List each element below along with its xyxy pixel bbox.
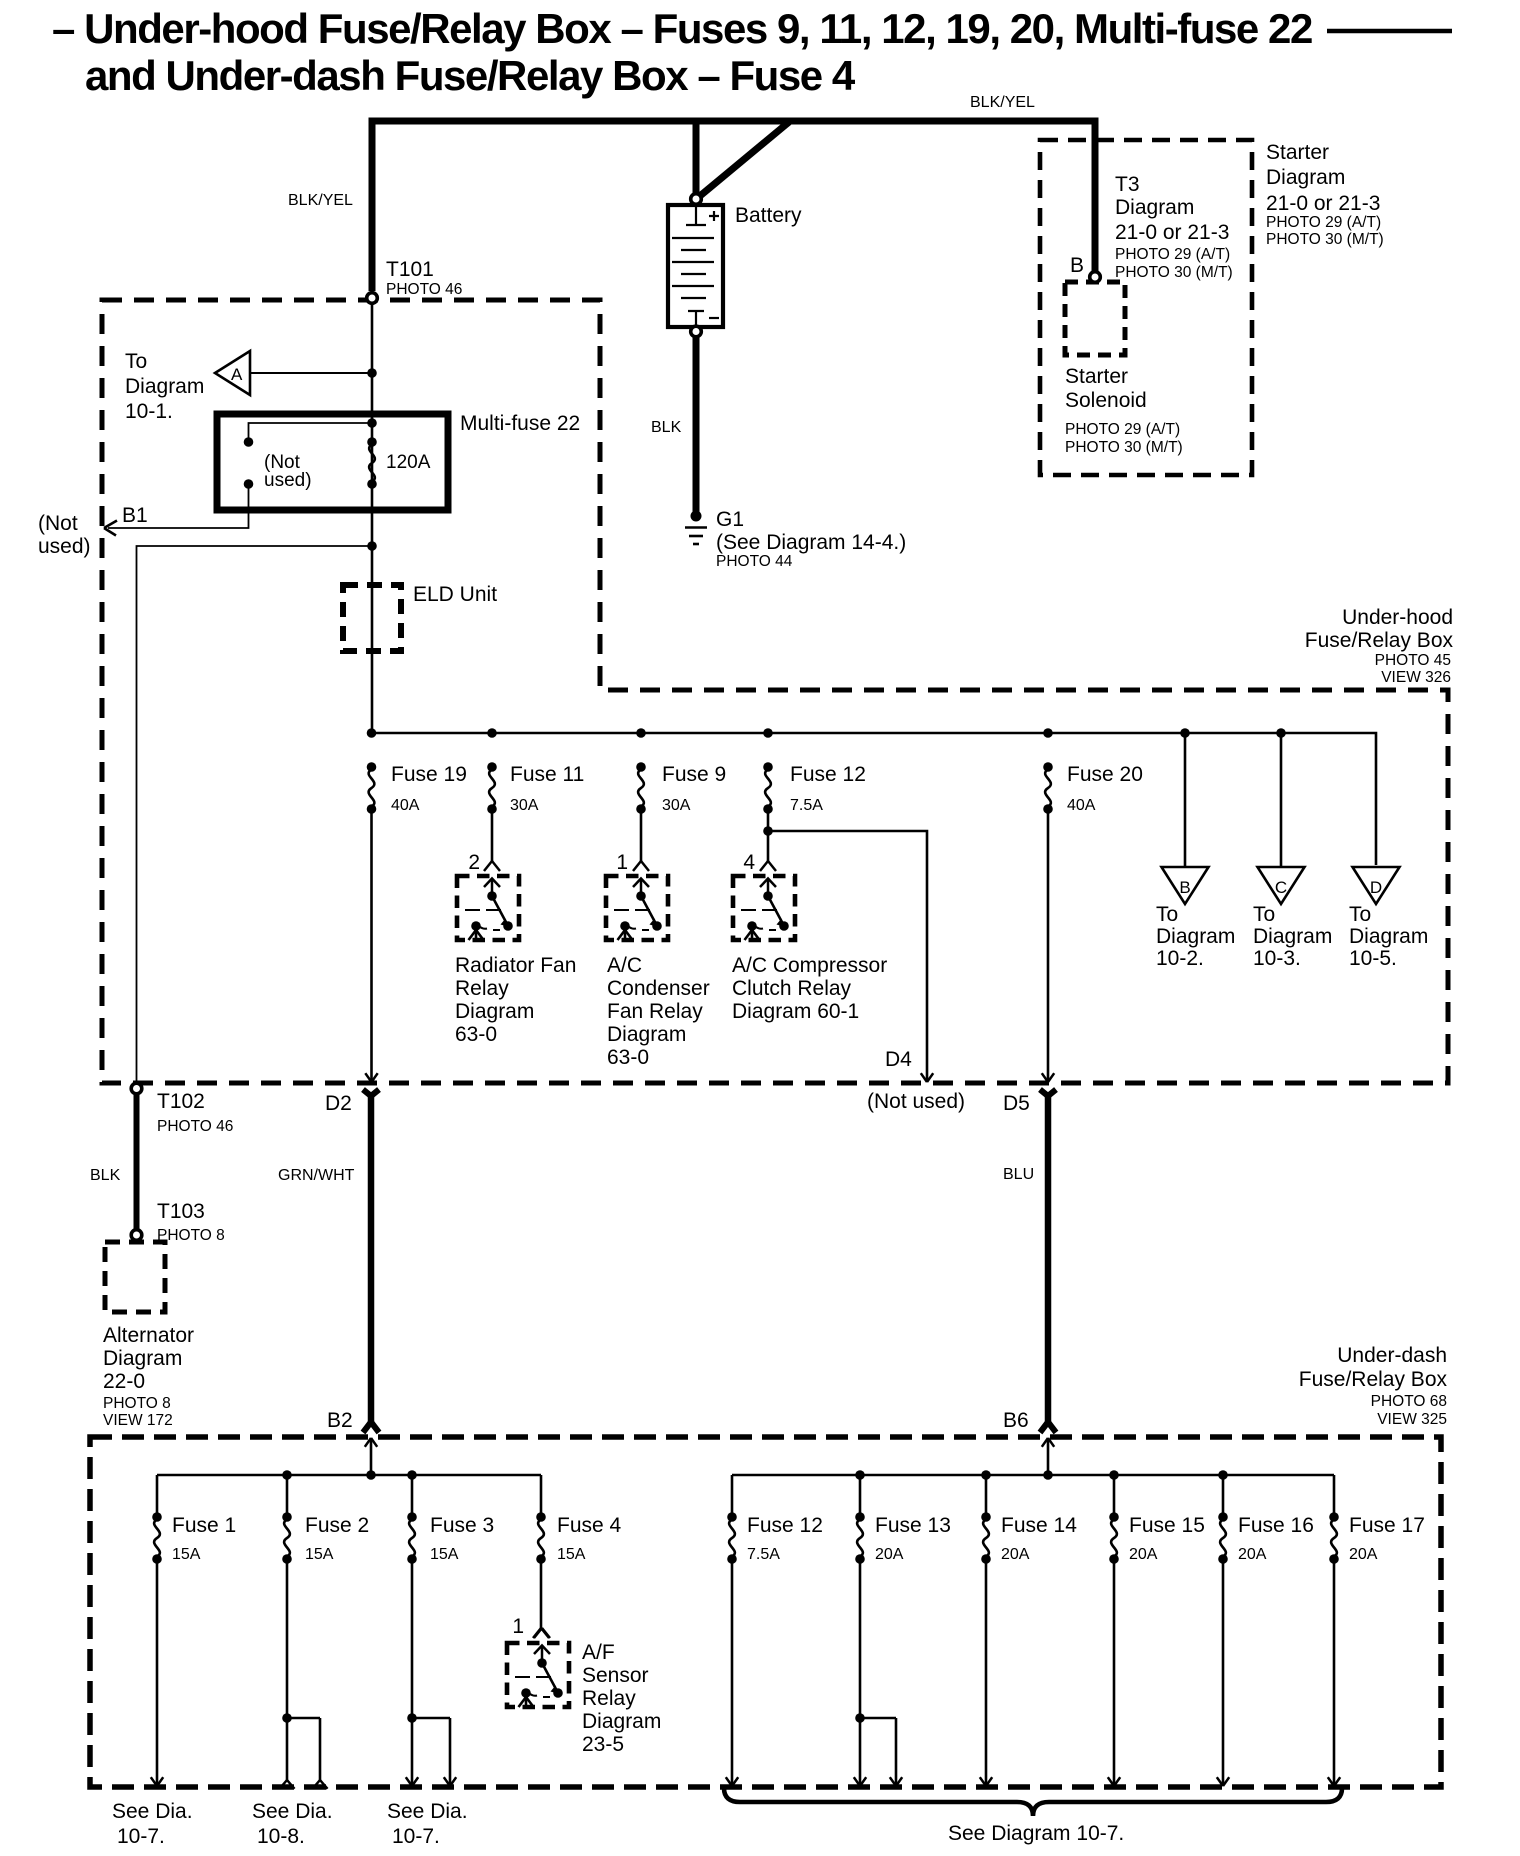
svg-text:Under-hood: Under-hood: [1342, 606, 1453, 629]
svg-text:BLK/YEL: BLK/YEL: [970, 94, 1035, 111]
svg-text:Starter: Starter: [1065, 365, 1128, 388]
svg-text:Diagram: Diagram: [607, 1023, 686, 1046]
svg-text:BLU: BLU: [1003, 1166, 1034, 1183]
svg-text:Fuse 13: Fuse 13: [875, 1514, 951, 1537]
svg-text:PHOTO 30 (M/T): PHOTO 30 (M/T): [1065, 439, 1183, 456]
svg-text:Fuse 9: Fuse 9: [662, 763, 726, 786]
svg-text:used): used): [38, 535, 91, 558]
svg-text:PHOTO 44: PHOTO 44: [716, 553, 793, 570]
svg-text:Under-dash: Under-dash: [1337, 1344, 1447, 1367]
svg-text:10-5.: 10-5.: [1349, 947, 1397, 970]
svg-text:T102: T102: [157, 1090, 205, 1113]
svg-text:4: 4: [743, 851, 755, 874]
svg-text:PHOTO 45: PHOTO 45: [1375, 652, 1451, 669]
svg-text:Fuse 16: Fuse 16: [1238, 1514, 1314, 1537]
svg-text:20A: 20A: [1001, 1546, 1030, 1563]
svg-text:Relay: Relay: [455, 977, 509, 1000]
svg-text:15A: 15A: [305, 1546, 334, 1563]
svg-text:A/C: A/C: [607, 954, 642, 977]
svg-text:VIEW 326: VIEW 326: [1381, 669, 1451, 686]
svg-text:G1: G1: [716, 508, 744, 531]
svg-text:ELD Unit: ELD Unit: [413, 583, 497, 606]
svg-text:10-1.: 10-1.: [125, 400, 173, 423]
svg-text:and Under-dash Fuse/Relay Box: and Under-dash Fuse/Relay Box – Fuse 4: [85, 52, 856, 99]
svg-text:To: To: [125, 350, 147, 373]
svg-text:Fuse 2: Fuse 2: [305, 1514, 369, 1537]
svg-text:2: 2: [468, 851, 480, 874]
svg-text:T103: T103: [157, 1200, 205, 1223]
svg-text:Fuse 11: Fuse 11: [510, 763, 584, 786]
svg-text:PHOTO 29 (A/T): PHOTO 29 (A/T): [1065, 421, 1180, 438]
svg-text:40A: 40A: [1067, 797, 1096, 814]
svg-text:D: D: [1370, 878, 1382, 897]
svg-text:Fuse 14: Fuse 14: [1001, 1514, 1077, 1537]
svg-text:Battery: Battery: [735, 204, 802, 227]
svg-text:PHOTO 68: PHOTO 68: [1371, 1393, 1447, 1410]
svg-text:Multi-fuse 22: Multi-fuse 22: [460, 412, 580, 435]
svg-text:Fan Relay: Fan Relay: [607, 1000, 703, 1023]
svg-text:GRN/WHT: GRN/WHT: [278, 1167, 355, 1184]
svg-text:Fuse 12: Fuse 12: [790, 763, 866, 786]
svg-text:30A: 30A: [662, 797, 691, 814]
svg-text:PHOTO 30 (M/T): PHOTO 30 (M/T): [1266, 231, 1384, 248]
svg-text:Fuse 20: Fuse 20: [1067, 763, 1143, 786]
svg-text:Fuse/Relay Box: Fuse/Relay Box: [1305, 629, 1454, 652]
svg-text:Diagram: Diagram: [1156, 925, 1235, 948]
svg-text:BLK: BLK: [651, 419, 682, 436]
svg-text:63-0: 63-0: [455, 1023, 497, 1046]
svg-text:Sensor: Sensor: [582, 1664, 649, 1687]
svg-text:D5: D5: [1003, 1092, 1030, 1115]
svg-text:BLK/YEL: BLK/YEL: [288, 192, 353, 209]
svg-text:1: 1: [616, 851, 628, 874]
svg-text:B: B: [1070, 254, 1084, 277]
svg-text:D2: D2: [325, 1092, 352, 1115]
svg-text:See Diagram 10-7.: See Diagram 10-7.: [948, 1822, 1124, 1845]
svg-text:(Not: (Not: [38, 512, 78, 535]
svg-text:Starter: Starter: [1266, 141, 1329, 164]
svg-text:B2: B2: [327, 1409, 353, 1432]
svg-text:See Dia.: See Dia.: [252, 1800, 333, 1823]
svg-text:Fuse 17: Fuse 17: [1349, 1514, 1425, 1537]
svg-text:PHOTO 30 (M/T): PHOTO 30 (M/T): [1115, 264, 1233, 281]
svg-text:Diagram: Diagram: [1253, 925, 1332, 948]
svg-text:Condenser: Condenser: [607, 977, 710, 1000]
svg-text:Solenoid: Solenoid: [1065, 389, 1147, 412]
svg-text:Diagram: Diagram: [1115, 196, 1194, 219]
svg-text:To: To: [1156, 903, 1178, 926]
svg-text:VIEW 325: VIEW 325: [1377, 1411, 1447, 1428]
svg-text:Fuse 1: Fuse 1: [172, 1514, 236, 1537]
svg-text:B1: B1: [122, 504, 148, 527]
svg-text:(See Diagram 14-4.): (See Diagram 14-4.): [716, 531, 906, 554]
svg-text:Fuse 4: Fuse 4: [557, 1514, 622, 1537]
svg-text:PHOTO 29 (A/T): PHOTO 29 (A/T): [1266, 214, 1381, 231]
svg-text:Diagram: Diagram: [125, 375, 204, 398]
svg-text:T101: T101: [386, 258, 434, 281]
svg-text:To: To: [1349, 903, 1371, 926]
svg-text:Clutch Relay: Clutch Relay: [732, 977, 852, 1000]
svg-text:D4: D4: [885, 1048, 912, 1071]
svg-text:10-2.: 10-2.: [1156, 947, 1204, 970]
svg-text:B: B: [1179, 878, 1190, 897]
svg-text:Fuse 3: Fuse 3: [430, 1514, 494, 1537]
svg-text:23-5: 23-5: [582, 1733, 624, 1756]
svg-text:Fuse 19: Fuse 19: [391, 763, 467, 786]
svg-text:20A: 20A: [1129, 1546, 1158, 1563]
svg-text:Fuse 15: Fuse 15: [1129, 1514, 1205, 1537]
svg-text:20A: 20A: [1238, 1546, 1267, 1563]
svg-text:Fuse/Relay Box: Fuse/Relay Box: [1299, 1368, 1448, 1391]
svg-text:20A: 20A: [875, 1546, 904, 1563]
svg-text:(Not used): (Not used): [867, 1090, 965, 1113]
svg-text:15A: 15A: [557, 1546, 586, 1563]
svg-text:Diagram 60-1: Diagram 60-1: [732, 1000, 859, 1023]
svg-text:Diagram: Diagram: [582, 1710, 661, 1733]
svg-text:PHOTO 8: PHOTO 8: [103, 1395, 171, 1412]
svg-text:15A: 15A: [172, 1546, 201, 1563]
svg-text:10-7.: 10-7.: [392, 1825, 440, 1848]
svg-text:Relay: Relay: [582, 1687, 636, 1710]
svg-text:C: C: [1275, 878, 1287, 897]
svg-text:B6: B6: [1003, 1409, 1029, 1432]
svg-text:See Dia.: See Dia.: [112, 1800, 193, 1823]
svg-text:21-0 or 21-3: 21-0 or 21-3: [1266, 192, 1380, 215]
svg-text:Diagram: Diagram: [103, 1347, 182, 1370]
svg-text:63-0: 63-0: [607, 1046, 649, 1069]
svg-text:VIEW 172: VIEW 172: [103, 1412, 173, 1429]
svg-text:Diagram: Diagram: [455, 1000, 534, 1023]
svg-text:See Dia.: See Dia.: [387, 1800, 468, 1823]
svg-text:– Under-hood Fuse/Relay Box –: – Under-hood Fuse/Relay Box – Fuses 9, 1…: [52, 5, 1312, 52]
svg-text:120A: 120A: [386, 452, 431, 473]
svg-text:A/C Compressor: A/C Compressor: [732, 954, 887, 977]
svg-text:To: To: [1253, 903, 1275, 926]
svg-text:Diagram: Diagram: [1349, 925, 1428, 948]
svg-text:22-0: 22-0: [103, 1370, 145, 1393]
svg-text:PHOTO 46: PHOTO 46: [386, 281, 462, 298]
svg-text:7.5A: 7.5A: [747, 1546, 780, 1563]
svg-text:20A: 20A: [1349, 1546, 1378, 1563]
svg-text:BLK: BLK: [90, 1167, 121, 1184]
svg-text:10-8.: 10-8.: [257, 1825, 305, 1848]
svg-text:used): used): [264, 470, 312, 491]
svg-text:PHOTO 29 (A/T): PHOTO 29 (A/T): [1115, 246, 1230, 263]
svg-text:10-3.: 10-3.: [1253, 947, 1301, 970]
svg-text:1: 1: [512, 1615, 524, 1638]
svg-text:Radiator Fan: Radiator Fan: [455, 954, 576, 977]
svg-text:30A: 30A: [510, 797, 539, 814]
svg-text:40A: 40A: [391, 797, 420, 814]
svg-text:Diagram: Diagram: [1266, 166, 1345, 189]
svg-text:A: A: [231, 365, 243, 384]
svg-text:10-7.: 10-7.: [117, 1825, 165, 1848]
svg-text:PHOTO 46: PHOTO 46: [157, 1118, 233, 1135]
svg-text:15A: 15A: [430, 1546, 459, 1563]
svg-text:7.5A: 7.5A: [790, 797, 823, 814]
svg-text:T3: T3: [1115, 173, 1140, 196]
svg-text:21-0 or 21-3: 21-0 or 21-3: [1115, 221, 1229, 244]
svg-text:Fuse 12: Fuse 12: [747, 1514, 823, 1537]
svg-text:Alternator: Alternator: [103, 1324, 194, 1347]
svg-text:A/F: A/F: [582, 1641, 615, 1664]
